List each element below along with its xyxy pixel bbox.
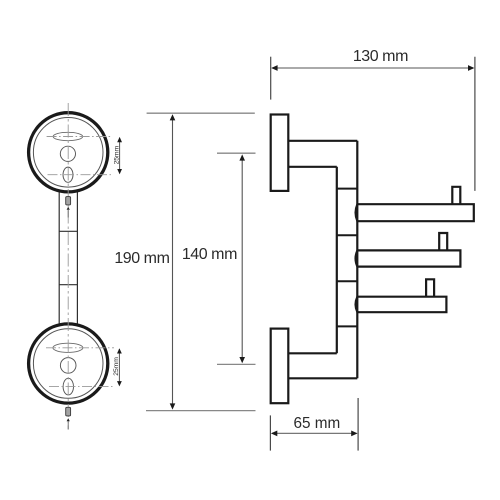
left view: connecting bar bbox=[59, 188, 77, 328]
dimension 65 mm bbox=[270, 398, 358, 451]
left view: vertical center line bbox=[67, 103, 69, 430]
left view: top screw bbox=[66, 197, 71, 205]
right view: top wall plate bbox=[271, 115, 289, 191]
left view: bottom rosette lens slot bbox=[53, 343, 83, 352]
left view: top rosette lower slot bbox=[63, 167, 73, 182]
svg-text:190 mm: 190 mm bbox=[114, 250, 169, 267]
dimension 190 mm bbox=[114, 113, 255, 410]
left view: top rosette inner circle bbox=[33, 118, 103, 188]
left view: top screw leader arrow bbox=[67, 207, 70, 210]
right view: hook 1 (top) bbox=[357, 204, 474, 221]
left view: bottom rosette center mark upper bbox=[46, 347, 114, 349]
svg-text:25mm: 25mm bbox=[113, 357, 120, 376]
dimension 25mm (top rosette) bbox=[113, 137, 122, 174]
left view: top rosette center mark upper bbox=[47, 136, 113, 138]
left view: top mounting rosette (outer circle) bbox=[29, 113, 108, 192]
right view: hook 2 (middle) bbox=[357, 250, 460, 266]
right view: bottom wall plate bbox=[271, 329, 289, 404]
svg-text:140 mm: 140 mm bbox=[182, 246, 237, 263]
right view: hook 3 (bottom) bbox=[357, 297, 446, 313]
right view: hook 2 end peg bbox=[439, 233, 447, 250]
left view: bottom mounting rosette (outer circle) bbox=[29, 324, 108, 403]
svg-text:65 mm: 65 mm bbox=[294, 415, 341, 432]
dimension 140 mm bbox=[182, 153, 256, 364]
right view: bottom arm bbox=[288, 353, 357, 378]
right view: swivel post bbox=[337, 141, 358, 378]
left view: bottom rosette inner circle bbox=[33, 329, 103, 399]
right view: top arm bbox=[288, 141, 357, 167]
left view: bottom rosette center mark lower bbox=[49, 386, 114, 388]
dimension 130 mm bbox=[271, 48, 475, 191]
left view: bottom rosette lower slot bbox=[63, 378, 73, 395]
right view: post joint lines bbox=[337, 189, 358, 327]
svg-text:130 mm: 130 mm bbox=[353, 48, 408, 65]
right view: hook 3 end peg bbox=[426, 279, 434, 296]
left view: top rosette center mark lower bbox=[48, 174, 113, 176]
left view: top rosette lens slot bbox=[53, 132, 83, 140]
left view: top rosette middle hole bbox=[60, 146, 75, 161]
dimension 25mm (bottom rosette) bbox=[113, 348, 122, 386]
right view: hook 1 end peg bbox=[452, 187, 460, 204]
left view: bottom screw leader arrow bbox=[67, 418, 70, 421]
left view: bottom rosette middle hole bbox=[60, 358, 76, 374]
svg-text:25mm: 25mm bbox=[113, 146, 120, 165]
left view: bottom screw bbox=[66, 407, 71, 416]
